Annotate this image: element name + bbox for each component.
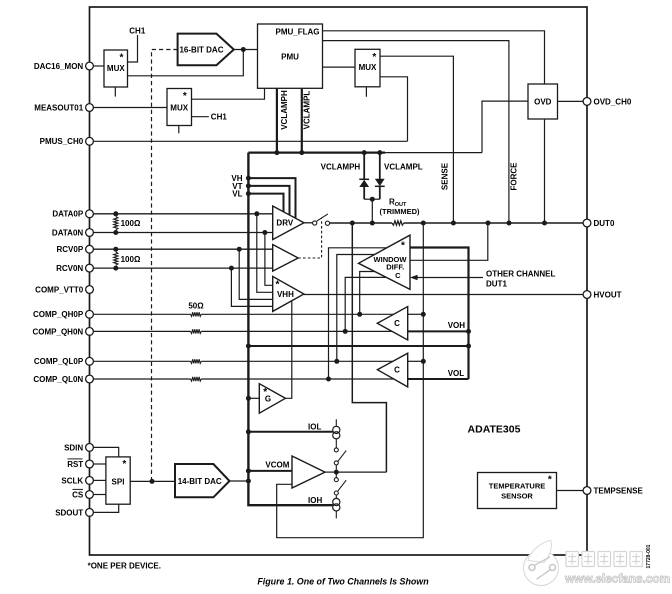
svg-text:*: * [183,91,187,102]
wire MUX2 CH1 stub [192,116,209,118]
svg-text:IOL: IOL [308,423,321,432]
svg-text:*: * [122,459,126,470]
pin DAC16_MON [86,62,94,70]
wire CH1 stub to MUX [128,35,138,62]
node bus comparator tap [246,344,251,349]
wire diode join [364,198,380,200]
wire clamp node bus [248,152,385,154]
wire OTHER CHANNEL DUT1 arrow [417,277,483,279]
node DATA0N resistor tap [113,230,118,235]
svg-text:VL: VL [232,190,242,199]
wire bus to IOL source [248,431,333,433]
node VH tap [246,176,251,181]
wire 14-BIT DAC to bus [230,480,249,482]
pin RST [86,460,94,468]
wire SDOUT to SPI [93,504,118,512]
wire DATA0P branch to VHH [257,214,273,292]
pin DATA0P [86,210,94,218]
wire DAC16_MON to MUX [93,65,104,67]
pin COMP_QH0N [86,328,94,336]
svg-text:VCLAMPL: VCLAMPL [302,91,311,130]
node G input tap [246,396,251,401]
resistor 50ohm QL0N [191,377,202,381]
resistor 100ohm (RCV) [114,252,118,265]
wire RCV0N branch to VHH [231,268,272,306]
svg-text:RST: RST [67,460,83,469]
svg-text:VOL: VOL [448,369,465,378]
svg-text:C: C [394,366,400,375]
node RCV0N resistor tap [113,266,118,271]
svg-text:MEASOUT01: MEASOUT01 [34,103,83,112]
wire diode node to DUT0 [371,199,373,223]
pin SCLK [86,477,94,485]
node dashed net terminal [150,479,155,484]
resistor 50ohm QH0P [191,312,202,316]
wire DATA0P net [93,213,272,215]
svg-text:COMP_QL0P: COMP_QL0P [34,357,84,366]
node QL0P window tap [334,359,339,364]
svg-text:SENSOR: SENSOR [501,491,533,500]
pin COMP_VTT0 [86,286,94,294]
wire COMP_QH0P net [93,313,190,315]
dac 16-BIT DAC [178,34,234,66]
wire SCLK to SPI [93,479,106,481]
svg-text:*ONE PER DEVICE.: *ONE PER DEVICE. [88,561,161,570]
comparator WINDOW DIFF C [359,235,411,289]
svg-text:CS: CS [72,490,84,499]
svg-text:PMU: PMU [281,53,299,62]
svg-text:www.elecfans.com: www.elecfans.com [564,572,670,586]
switch IOL [334,448,338,452]
svg-text:VHH: VHH [277,290,294,299]
wire CS to SPI [93,494,106,496]
svg-text:COMP_QH0P: COMP_QH0P [33,310,84,319]
wire window diff DUT0 input [410,223,488,260]
switch IOH [335,472,337,478]
node RCV0P branch [237,247,242,252]
mux MUX3 (sense mux) [355,49,380,87]
wire window diff output (thick) [410,248,469,380]
node QL0N window tap [326,377,331,382]
ovd OVD box [528,84,558,119]
current-source IOH [335,495,337,499]
wire MEASOUT01 to MUX2 [93,107,167,109]
node DATA0N branch [262,230,267,235]
pin CS [86,491,94,499]
node clamp diode L junction [377,150,382,155]
receiver buffer [273,245,299,272]
svg-text:COMP_VTT0: COMP_VTT0 [35,285,84,294]
svg-text:COMP_QH0N: COMP_QH0N [33,327,84,336]
svg-text:FORCE: FORCE [510,162,519,191]
wire bus to G input [248,397,259,399]
svg-text:HVOUT: HVOUT [594,290,622,299]
node DUT branch at VOH [421,312,426,317]
node QH0P window tap [357,312,362,317]
node diode join [370,197,375,202]
node DUT0 clamp branch [370,221,375,226]
svg-text:100Ω: 100Ω [121,219,141,228]
node DUT0 window junction [486,221,491,226]
node DATA0P branch [254,211,259,216]
svg-text:CH1: CH1 [129,26,146,35]
node RCV0P resistor tap [113,247,118,252]
svg-text:17728-001: 17728-001 [646,544,652,568]
node QH0N window tap [343,329,348,334]
svg-text:VCLAMPH: VCLAMPH [321,162,361,171]
wire RST to SPI [93,463,106,465]
pin RCV0P [86,245,94,253]
mux MUX1 (DAC16 monitor mux) [104,50,128,87]
svg-text:SDOUT: SDOUT [55,508,83,517]
amplifier G [259,384,285,414]
wire MUX3 bottom stub [365,87,367,97]
wire QL0N tap to window diff [329,248,387,379]
wire COMP_QL0P net [93,360,190,362]
svg-text:RCV0N: RCV0N [56,264,83,273]
node DUT0 force junction [507,221,512,226]
svg-text:ADATE305: ADATE305 [468,423,521,435]
wire PMU force to FORCE line [323,41,509,223]
resistor ROUT trimmed [392,221,404,225]
svg-text:VCLAMPH: VCLAMPH [280,90,289,130]
wire SDIN to SPI [93,447,118,457]
wire MUX3 to SENSE line [380,56,453,223]
svg-text:14-BIT DAC: 14-BIT DAC [178,477,222,486]
svg-text:VCOM: VCOM [265,461,289,470]
svg-text:DATA0N: DATA0N [52,228,83,237]
pin COMP_QL0P [86,357,94,365]
wire RCV0N net [93,267,272,269]
wire DATA0N net [93,232,272,234]
watermark elecfans logo [524,540,559,585]
node VCLAMPL junction [299,150,304,155]
wire DUT0 comparator branch / VCOM feedback [277,223,424,538]
pin DUT0 [583,219,591,227]
pin RCV0N [86,264,94,272]
node DATA0P resistor tap [113,211,118,216]
pin SDOUT [86,509,94,517]
pin DATA0N [86,229,94,237]
resistor 100ohm (DATA) [114,217,118,230]
svg-text:*: * [276,280,280,291]
node VOH output junction [466,329,471,334]
node DUT0 comparator branch [421,221,426,226]
wire HVOUT net [304,294,583,296]
svg-text:PMUS_CH0: PMUS_CH0 [40,137,84,146]
dashed channel-select net from SPI [152,50,178,482]
wire OVD to DUT0 line [544,119,546,223]
node RCV0N branch [229,266,234,271]
wire VCOM output to switch center [325,471,336,473]
svg-text:DUT1: DUT1 [486,279,507,288]
node comparator net junction [466,344,471,349]
wire RCV0P net [93,248,272,250]
svg-text:DUT0: DUT0 [594,219,615,228]
wire COMP_QL0N net [93,378,190,380]
pin MEASOUT01 [86,104,94,112]
wire MUX3 to PMUS_CH0 [380,77,408,142]
wire MUX to 16-BIT DAC output node [128,50,244,76]
svg-text:SCLK: SCLK [61,476,83,485]
node DAC bus junction [246,479,251,484]
svg-text:COMP_QL0N: COMP_QL0N [33,375,83,384]
svg-text:(TRIMMED): (TRIMMED) [380,207,420,216]
node VT tap [246,183,251,188]
resistor 50ohm QH0N [191,329,202,333]
node clamp diode H junction [362,150,367,155]
svg-text:SPI: SPI [112,477,125,486]
wire QH0P tap to window diff [360,272,375,315]
wire MUX2 to PMU bottom [192,88,265,99]
diode VCLAMPL clamp [379,153,381,179]
svg-text:*: * [372,52,376,63]
svg-text:VOH: VOH [448,321,466,330]
wire VCLAMPH rail from PMU [276,88,278,152]
wire DRV output stub [304,222,313,224]
pin OVD_CH0 [583,98,591,106]
wire temp sensor to TEMPSENSE pin [557,490,584,492]
wire SPI to 14-BIT DAC [130,480,175,482]
wire switch center to DUT branch [336,471,386,473]
pin SDIN [86,444,94,452]
resistor 50ohm QL0P [191,359,202,363]
wire QL0P tap to window diff [337,255,375,362]
driver DRV [273,206,304,240]
node 16-BIT DAC output junction [241,47,246,52]
svg-text:*: * [401,240,405,251]
wire OVD to OVD_CH0 pin [558,100,584,102]
svg-text:TEMPERATURE: TEMPERATURE [489,482,546,491]
switch DRV output relay [313,221,317,225]
svg-text:TEMPSENSE: TEMPSENSE [594,486,644,495]
mux MUX2 (measout mux) [167,89,192,126]
wire VL level to DRV [248,194,283,212]
svg-text:PMU_FLAG: PMU_FLAG [276,28,320,37]
wire COMP_QH0N net [93,330,190,332]
svg-text:SDIN: SDIN [64,443,83,452]
node DUT0 ovd junction [542,221,547,226]
svg-text:CH1: CH1 [211,113,228,122]
wire G output to VHH [285,301,291,398]
svg-text:DAC16_MON: DAC16_MON [34,62,84,71]
wire VCLAMPL rail from PMU [301,88,303,152]
driver VHH (high voltage) [273,276,304,311]
wire PMU to MUX3 [323,66,356,68]
pin COMP_QL0N [86,375,94,383]
svg-text:MUX: MUX [359,63,377,72]
svg-text:OVD_CH0: OVD_CH0 [594,97,632,106]
pin HVOUT [583,291,591,299]
node DUT0 sense junction [451,221,456,226]
dac 14-BIT DAC [175,464,230,497]
node DUT0 switch branch [350,221,355,226]
wire DATA0N branch to VHH [265,233,273,286]
wire PMU_FLAG to OVD [323,31,545,84]
svg-text:Figure 1. One of Two Channels: Figure 1. One of Two Channels Is Shown [257,577,429,587]
svg-text:DATA0P: DATA0P [52,210,83,219]
wire RCV0P branch to VHH [239,249,273,299]
wire DUT0 trunk [330,222,392,224]
svg-text:*: * [548,474,552,485]
svg-text:RCV0P: RCV0P [57,245,84,254]
node IOL tap [246,429,251,434]
node VCLAMPH junction [274,150,279,155]
svg-text:G: G [265,394,271,403]
wire VOL output [408,378,469,380]
amplifier VCOM [292,456,325,488]
wire QH0N tap to window diff [345,277,386,331]
wire clamp node to OVD [482,101,528,153]
chip boundary ADATE305 [90,7,588,555]
bus PMU analog bus (vertical) [248,153,333,506]
comparator C (VOL) [377,353,407,387]
diode VCLAMPH clamp [363,153,365,180]
svg-text:OVD: OVD [534,98,552,107]
pin TEMPSENSE [583,487,591,495]
svg-text:50Ω: 50Ω [188,301,204,310]
wire MUX2 bottom stub [178,126,180,134]
comparator C (VOH) [377,307,407,341]
wire VH level to DRV [248,178,295,218]
spi SPI box [106,457,130,504]
svg-text:*: * [120,53,124,64]
node switch center [334,470,339,475]
node VL tap [246,191,251,196]
pin COMP_QH0P [86,310,94,318]
svg-text:C: C [394,319,400,328]
node DUT branch at VOL [421,359,426,364]
svg-text:OTHER CHANNEL: OTHER CHANNEL [486,270,555,279]
svg-text:MUX: MUX [107,64,125,73]
svg-text:16-BIT DAC: 16-BIT DAC [179,46,223,55]
svg-text:IOH: IOH [308,496,322,505]
current-source IOL [335,419,337,426]
wire bus to VCOM input [248,470,292,472]
wire VOH comp DUT input [408,313,424,315]
svg-text:DRV: DRV [276,219,293,228]
wire bus to comparator net (thick) [248,345,468,347]
svg-text:MUX: MUX [170,103,188,112]
wire MUX1 bottom stub [114,87,116,97]
wire 16-BIT DAC to PMU [234,49,258,51]
pmu PMU box [258,24,323,88]
node VCOM tap [246,468,251,473]
svg-text:SENSE: SENSE [441,162,450,190]
wire VOL comp DUT input [408,360,424,362]
watermark elecfans CJK text (placeholder shapes) [566,552,643,567]
wire DUT0 to IOL/IOH switches [352,223,386,472]
wire PMUS_CH0 [93,140,407,142]
svg-text:VCLAMPL: VCLAMPL [384,162,423,171]
pin PMUS_CH0 [86,137,94,145]
svg-text:100Ω: 100Ω [121,255,141,264]
wire VOH output [408,330,469,332]
wire VT level to DRV [248,186,289,215]
svg-text:C: C [395,271,401,280]
wire receiver dashed output to switch [298,219,321,259]
sensor TEMPERATURE SENSOR [478,473,557,509]
